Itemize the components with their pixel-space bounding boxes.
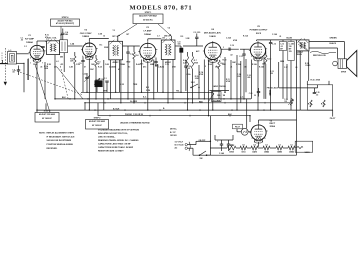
padder capacitor blob [95, 81, 103, 87]
svg-text:C-6: C-6 [130, 54, 133, 56]
volume control R-9 [212, 92, 222, 102]
svg-text:60 CYCLE: 60 CYCLE [175, 144, 185, 146]
bus phono [98, 115, 250, 117]
wire R-8 drop [218, 69, 220, 99]
svg-text:7: 7 [155, 57, 156, 59]
resistor R-3 below V2 [95, 59, 97, 67]
svg-text:SW-1: SW-1 [191, 82, 195, 84]
wire V5 cathode down [257, 60, 259, 71]
svg-text:C-4B: C-4B [69, 65, 74, 68]
svg-text:C-4A: C-4A [70, 43, 75, 46]
wire V2 plate top [88, 39, 90, 42]
svg-text:12BE6: 12BE6 [277, 152, 282, 154]
resistor R-6 AVC [186, 56, 188, 69]
svg-text:B- BLK: B- BLK [113, 108, 120, 110]
tube V3 [140, 43, 156, 59]
svg-text:C-9A: C-9A [187, 73, 192, 76]
svg-text:PILOT: PILOT [235, 127, 241, 129]
svg-text:2: 2 [251, 56, 252, 58]
wire V3 pin drop [141, 60, 143, 93]
svg-text:35W4: 35W4 [229, 151, 233, 154]
svg-text:TRANS: TRANS [296, 53, 303, 56]
tone network box [307, 85, 332, 111]
svg-text:POWER OUTPUT: POWER OUTPUT [250, 30, 269, 32]
wire T2 center pin [167, 60, 169, 103]
wire R-12 drop [265, 64, 267, 99]
wire V3 pins [147, 61, 149, 67]
extra verticals mid [119, 60, 121, 93]
capacitor C-2 [17, 69, 20, 71]
svg-text:ADJUST FOR MAX: ADJUST FOR MAX [89, 120, 106, 123]
svg-text:READINGS TAKEN: MODEL W-1 CHA: READINGS TAKEN: MODEL W-1 CHASSIS [98, 139, 139, 142]
svg-text:C-7B: C-7B [165, 64, 170, 66]
resistor R-4 [133, 52, 135, 59]
svg-text:3: 3 [205, 66, 206, 68]
svg-text:220: 220 [270, 73, 273, 75]
svg-text:AT 1620 KC: AT 1620 KC [92, 124, 103, 127]
capacitor C-13 stack [279, 42, 286, 51]
bottom rail power [193, 154, 297, 156]
IF transformer T1 [109, 41, 123, 60]
tube V4 [204, 43, 221, 60]
wire T2 right pin [172, 60, 174, 99]
wire C-11 return [236, 55, 238, 110]
wire bus left drop [36, 110, 38, 112]
wire C-13 drop [282, 56, 284, 99]
svg-text:150: 150 [262, 64, 265, 66]
wire bus right drops [249, 116, 251, 122]
wire R-3 drop [95, 67, 97, 99]
svg-text:AT 1400 KC: AT 1400 KC [42, 117, 53, 120]
svg-text:RED: RED [127, 62, 131, 64]
wire V5 cathode drop [257, 70, 259, 110]
svg-text:47: 47 [98, 63, 100, 66]
tube V5 [250, 43, 265, 58]
svg-text:12AV6: 12AV6 [252, 151, 257, 154]
svg-text:REFLEX ALIGNMENT STEPS: REFLEX ALIGNMENT STEPS [47, 131, 75, 134]
bus AVC [81, 91, 213, 93]
svg-text:B-: B- [163, 108, 165, 110]
svg-text:GRN: GRN [280, 61, 285, 63]
svg-text:R-15: R-15 [321, 104, 325, 106]
wire junction drop [224, 57, 226, 92]
svg-text:VOLTAGES MEASURED WITH VTVM FR: VOLTAGES MEASURED WITH VTVM FROM [98, 128, 139, 131]
svg-text:6: 6 [42, 58, 43, 60]
svg-text:KC: KC [128, 66, 131, 68]
callout STEP 4 arrow [60, 26, 62, 37]
svg-text:.01: .01 [279, 36, 281, 38]
wire V4 plate out [221, 48, 239, 50]
wire grid entry V5 [240, 48, 250, 50]
wire vert 240.8 [240, 61, 242, 103]
capacitor C-12 plate [269, 42, 272, 44]
svg-text:R-9: R-9 [217, 95, 220, 97]
svg-text:LINE. NO SIGNAL.: LINE. NO SIGNAL. [98, 136, 116, 139]
pilot lamp [241, 128, 248, 135]
svg-text:MF: MF [280, 49, 282, 51]
svg-text:POSITION WHEN ALIGNING: POSITION WHEN ALIGNING [47, 143, 74, 146]
heater resistor 12BE6 [276, 146, 283, 150]
svg-text:2.2M: 2.2M [146, 90, 150, 92]
wire T1 right pin [120, 60, 122, 103]
svg-text:B- 117: B- 117 [170, 132, 176, 134]
svg-text:V2: V2 [84, 30, 87, 32]
svg-text:OR 90V: OR 90V [170, 135, 177, 137]
svg-text:DET-AUDIO-AVC: DET-AUDIO-AVC [204, 32, 222, 35]
wire V5 pin drop [251, 60, 253, 99]
wire B+ riser [296, 120, 298, 141]
svg-text:1: 1 [30, 63, 31, 65]
switch SW on-off [200, 151, 207, 155]
svg-text:OSC-CONV: OSC-CONV [80, 33, 92, 35]
svg-text:V5: V5 [257, 26, 260, 28]
svg-text:R-12A: R-12A [252, 63, 257, 66]
wire C-11 drop [243, 59, 245, 99]
wire antenna top [17, 53, 29, 55]
wire C-14 drop [290, 64, 292, 110]
wire V3 plate [147, 39, 149, 42]
wire osc drop [54, 55, 56, 99]
svg-text:150: 150 [244, 66, 247, 68]
wire R-6 drop [187, 69, 189, 110]
capacitor C-3 [41, 46, 44, 48]
svg-text:3.3M: 3.3M [186, 38, 190, 40]
speaker voice coil [338, 59, 347, 69]
svg-text:T-3: T-3 [113, 30, 115, 32]
svg-text:1ST: 1ST [126, 34, 130, 36]
svg-text:220K: 220K [222, 64, 227, 66]
svg-text:.01: .01 [230, 66, 232, 68]
wire V3 pin2 drop [153, 60, 155, 99]
svg-text:.05: .05 [21, 40, 23, 42]
svg-text:V1: V1 [28, 35, 31, 37]
pot R-15 end [290, 99, 292, 106]
svg-text:C-1D: C-1D [120, 84, 125, 86]
junction dots [54, 98, 55, 99]
svg-text:12BA6: 12BA6 [144, 33, 152, 36]
svg-text:C-6B: C-6B [105, 64, 110, 66]
svg-text:V4: V4 [211, 28, 214, 31]
svg-text:5: 5 [223, 47, 224, 49]
svg-text:.02: .02 [230, 55, 233, 57]
wire V5 plate to top rail [256, 40, 258, 41]
svg-text:470: 470 [45, 36, 48, 39]
svg-text:V3: V3 [146, 27, 149, 29]
wire C-2 leads [18, 66, 20, 70]
svg-text:50C5: 50C5 [241, 152, 245, 154]
svg-text:C-9 220: C-9 220 [193, 32, 200, 34]
heater resistor 50C5 [240, 146, 247, 150]
svg-text:SW: SW [200, 158, 203, 160]
gang dashed link antenna [4, 48, 6, 82]
svg-text:12BE6: 12BE6 [82, 36, 89, 38]
svg-text:25V: 25V [289, 51, 293, 53]
wire detector drop [180, 52, 182, 92]
svg-text:220K: 220K [104, 47, 109, 49]
svg-text:.05: .05 [40, 66, 42, 68]
wire V3 cathode drop [147, 67, 149, 110]
wire R-4 drop [133, 59, 135, 103]
svg-text:1: 1 [141, 57, 142, 59]
svg-text:100K: 100K [44, 68, 49, 70]
resistor R-15 tone [323, 100, 325, 107]
wire T1 left pin [110, 60, 112, 99]
svg-text:V-2: V-2 [278, 144, 281, 146]
wire R-7 drop [192, 69, 194, 103]
svg-text:1.5A: 1.5A [284, 98, 288, 101]
resistor R-8 below V4 [218, 60, 220, 69]
svg-text:C-12A: C-12A [272, 33, 278, 36]
svg-text:R-10: R-10 [223, 60, 227, 62]
svg-text:BLK: BLK [62, 97, 66, 99]
svg-text:470K: 470K [194, 61, 199, 64]
svg-text:NOTE:: NOTE: [39, 132, 46, 134]
svg-text:12BA6: 12BA6 [289, 151, 294, 154]
svg-text:.05: .05 [188, 68, 190, 70]
tube V6 [251, 125, 266, 140]
power plug [185, 143, 187, 145]
diode load components [175, 45, 181, 47]
svg-text:C-11: C-11 [239, 56, 243, 58]
svg-text:AVC: AVC [140, 63, 144, 66]
capacitor C-15 tone [313, 92, 316, 94]
svg-text:7: 7 [42, 63, 43, 65]
wire antenna to V1 grid [17, 62, 25, 64]
wire V4 pin2 drop [208, 61, 210, 116]
svg-text:IF NECESSARY. SWITCH A-M: IF NECESSARY. SWITCH A-M [47, 135, 75, 138]
svg-text:V-3: V-3 [265, 144, 268, 146]
wire segment [230, 60, 232, 99]
svg-text:CAPACITORS LESS THAN 1 IN MF: CAPACITORS LESS THAN 1 IN MF [98, 143, 131, 146]
svg-text:UNLESS OTHERWISE NOTED:: UNLESS OTHERWISE NOTED: [120, 122, 150, 124]
capacitor C-9 grid [195, 36, 198, 38]
svg-text:C-20: C-20 [249, 93, 253, 95]
wire V6 plate up [258, 120, 260, 123]
svg-text:PHONO JACK: PHONO JACK [267, 87, 279, 90]
wire gang stem [86, 73, 88, 78]
capacitor C-18 left [184, 65, 187, 67]
bus AC heater [55, 98, 251, 100]
resistor R-7 [191, 56, 193, 69]
wire stack leads [282, 40, 284, 42]
tube V2 [83, 43, 97, 57]
svg-text:C-1: C-1 [104, 78, 107, 80]
wire osc to V2 [68, 45, 83, 47]
wire C-12 drop [270, 47, 272, 110]
tuning gang diagonal left [35, 64, 50, 113]
heater resistor 12BA6b [288, 146, 295, 150]
svg-text:VOLUME: VOLUME [212, 100, 220, 102]
svg-text:A.C.: A.C. [143, 96, 147, 99]
ballast box [295, 141, 313, 152]
wire V1 cathode drop [27, 59, 29, 80]
svg-text:V-5: V-5 [242, 144, 245, 146]
svg-text:R-5: R-5 [181, 36, 184, 38]
node antenna [23, 63, 24, 64]
capacitor C-4 above osc [61, 32, 64, 34]
svg-text:RECEIVER.: RECEIVER. [47, 148, 58, 150]
wire V2 pins drop [88, 66, 90, 110]
wire tone bottom out [300, 109, 333, 111]
wire plug to switch [195, 141, 197, 144]
svg-text:GRN: GRN [103, 91, 108, 93]
svg-text:12AV6: 12AV6 [305, 151, 310, 154]
resistor R-2 below osc [74, 56, 76, 64]
svg-text:1 MEG: 1 MEG [305, 65, 311, 67]
speaker cone [347, 51, 357, 77]
resistor R-14 tone [310, 100, 312, 107]
wire V6 cathode [258, 142, 260, 147]
svg-text:OSC. COIL: OSC. COIL [47, 38, 57, 40]
svg-text:PHONO Y-52 OR 58: PHONO Y-52 OR 58 [125, 114, 143, 116]
coil T-osc box B [60, 40, 68, 53]
svg-text:ADJUST FOR MAX: ADJUST FOR MAX [139, 15, 157, 18]
svg-text:2.2M: 2.2M [183, 62, 187, 64]
wire tone top [279, 87, 318, 89]
svg-text:+: + [217, 141, 219, 143]
wire V1 pins down [36, 61, 38, 67]
svg-text:1: 1 [205, 57, 206, 59]
wire C-6 drop [127, 58, 129, 99]
svg-text:INDICATED SOCKET PIN TO B-,: INDICATED SOCKET PIN TO B-, [98, 132, 128, 135]
svg-text:R-F AMP: R-F AMP [25, 37, 35, 40]
svg-text:2: 2 [30, 58, 31, 60]
svg-text:R-11A: R-11A [243, 34, 249, 37]
svg-text:BLUE: BLUE [287, 38, 293, 40]
capacitor C-7 below V3 [154, 61, 157, 63]
svg-text:ON-OFF: ON-OFF [199, 140, 207, 142]
svg-text:AT 455 KC: AT 455 KC [143, 18, 153, 21]
wire switch feed [207, 154, 211, 156]
svg-text:C-7: C-7 [157, 35, 160, 37]
svg-text:35W4: 35W4 [270, 125, 276, 128]
wire right bus down [296, 51, 298, 120]
capacitor C-6 [126, 51, 129, 53]
svg-text:C-3: C-3 [41, 51, 44, 53]
svg-text:680: 680 [65, 34, 68, 36]
svg-text:MODELS 870, 871: MODELS 870, 871 [130, 5, 193, 12]
resistor R-12 cathode [265, 55, 267, 64]
wire V4 cathode drop [212, 68, 214, 110]
svg-text:L-2: L-2 [56, 61, 59, 63]
svg-text:47: 47 [84, 65, 86, 68]
wire T2 left pin [162, 60, 164, 93]
svg-text:117 VOLT: 117 VOLT [175, 141, 184, 143]
trimmer cluster C-1A [85, 77, 88, 79]
coil T-osc box A [47, 41, 60, 55]
svg-text:V-6: V-6 [230, 144, 233, 146]
svg-text:470K: 470K [199, 73, 204, 76]
bus B+ upper [85, 102, 290, 104]
svg-text:I-F AMP: I-F AMP [143, 30, 152, 33]
trimmer C-1C [105, 80, 108, 82]
bus tick marks [69, 98, 71, 100]
svg-text:DET B+: DET B+ [170, 128, 178, 130]
svg-text:BLACK: BLACK [330, 42, 337, 45]
callout STEP 1 arrow right [158, 24, 171, 36]
svg-text:470: 470 [61, 63, 64, 66]
wire plate rail down [299, 51, 301, 110]
wire secondary bottom [309, 47, 338, 49]
svg-text:R-1: R-1 [100, 45, 103, 47]
wire secondary top [309, 41, 344, 43]
svg-text:RECT: RECT [270, 123, 276, 125]
capacitor C-10 coupling [228, 48, 230, 51]
svg-text:12AV6: 12AV6 [209, 35, 216, 38]
svg-text:C-5B: C-5B [98, 34, 103, 36]
svg-text:C-14A: C-14A [219, 152, 225, 155]
svg-text:C-12: C-12 [272, 44, 276, 46]
wire det to V4 [183, 45, 203, 47]
gang dashed diagonal [14, 70, 82, 95]
svg-text:SHOULD BE IN EXTREME: SHOULD BE IN EXTREME [47, 140, 72, 142]
svg-text:RED/YELLOW: RED/YELLOW [313, 55, 326, 57]
wire V1 plate [36, 41, 38, 44]
tube V1 [30, 45, 44, 59]
svg-text:T-1: T-1 [46, 39, 49, 41]
svg-text:2ND I-F: 2ND I-F [164, 36, 171, 38]
wire cap top rail [215, 139, 233, 141]
svg-text:.005: .005 [247, 77, 250, 79]
svg-text:R-16 470K: R-16 470K [311, 78, 321, 81]
wire x210 riser [209, 116, 211, 142]
svg-text:V-4: V-4 [253, 143, 256, 146]
svg-text:TRIM: TRIM [133, 84, 138, 86]
svg-text:100: 100 [162, 38, 165, 40]
extra stub wires [117, 36, 119, 41]
svg-text:R-14: R-14 [308, 103, 312, 106]
svg-text:470K: 470K [226, 80, 231, 83]
wire pilot leads [237, 131, 241, 133]
IF transformer T2 [161, 40, 175, 60]
svg-text:CAPACITORS MORE THAN 1 IN MMF: CAPACITORS MORE THAN 1 IN MMF [98, 146, 134, 149]
svg-text:RESISTORS ARE 1/2 WATT: RESISTORS ARE 1/2 WATT [98, 150, 124, 153]
speaker magnet circle [333, 61, 338, 66]
svg-text:C-10A: C-10A [226, 37, 232, 40]
svg-text:ADJUST FOR MAX: ADJUST FOR MAX [39, 113, 56, 116]
svg-text:R-13A: R-13A [259, 65, 264, 68]
svg-text:.05: .05 [295, 67, 297, 69]
svg-text:GREEN: GREEN [330, 38, 338, 40]
svg-text:V6: V6 [270, 120, 273, 122]
filament string wire [210, 147, 227, 149]
wire V4 pins [212, 62, 214, 69]
svg-text:455 KC: 455 KC [165, 61, 172, 64]
svg-text:1M: 1M [223, 95, 226, 97]
loop antenna L1 outer [8, 52, 17, 65]
ground arrow antenna [4, 82, 7, 86]
svg-text:30: 30 [254, 95, 256, 97]
loop antenna L1 inner [10, 54, 15, 63]
capacitor C-14 stack [288, 42, 294, 61]
pilot lamp label box [233, 124, 243, 129]
wire V1 pin bus drop [36, 67, 38, 110]
wire segment [44, 62, 46, 99]
svg-text:C-10: C-10 [230, 45, 234, 47]
wire T1 to V3 grid [123, 45, 140, 47]
svg-text:PILOT: PILOT [330, 118, 336, 120]
crystal detector blob [180, 48, 183, 52]
svg-text:AT 600 KC(FROM EXT): AT 600 KC(FROM EXT) [56, 22, 75, 25]
svg-text:125: 125 [284, 101, 287, 103]
left edge connector box [0, 62, 8, 64]
svg-text:22K: 22K [70, 61, 74, 63]
svg-text:K-5: K-5 [146, 87, 149, 89]
wire C-5 drop [82, 66, 84, 92]
svg-text:100: 100 [178, 44, 181, 46]
capacitor C-5 below V2 [81, 60, 84, 62]
svg-text:RADIO PHONO: RADIO PHONO [212, 85, 226, 88]
